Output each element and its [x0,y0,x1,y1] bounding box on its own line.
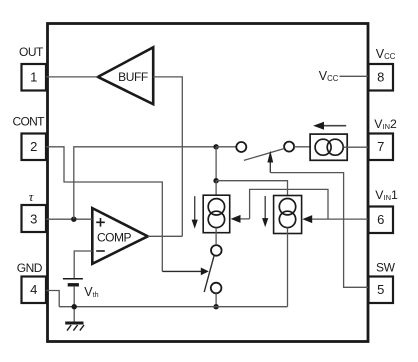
wire COMP minus input to battery [74,251,92,278]
pin 3 box [22,205,47,232]
svg-text:SW: SW [376,261,396,275]
svg-text:COMP: COMP [97,230,131,244]
wire pin4 GND to ground rail [46,291,59,307]
wire current mirror to pin 7 [343,146,368,148]
svg-text:GND: GND [17,261,43,275]
wire S2 bottom contact to ground rail [215,293,217,306]
node battery ground junction [72,304,77,309]
wire junction down to middle node [215,147,217,181]
svg-text:CONT: CONT [13,115,46,129]
IC outer border [48,24,369,342]
arrow into I1 from VIN1 pointing left [231,215,250,223]
wire VIN1 branch to I1 [250,189,328,219]
arrow CONT control pointing right at lower switch [201,268,209,276]
battery Vth [63,279,83,285]
wire S1 control from pin5 SW [270,173,368,288]
svg-text:BUFF: BUFF [118,70,148,84]
current source I1 left [203,195,230,233]
arrow I1 direction pointing down [192,196,198,228]
arrow S1 control pointing up [267,151,273,173]
current source I2 right [274,196,302,234]
current mirror B1 [310,134,347,160]
node middle junction [213,178,218,183]
wire Vcc label to pin 8 [340,75,369,77]
wire pin2 CONT to lower switch control [46,147,162,272]
wire right current source bottom to ground rail [287,228,289,307]
svg-text:6: 6 [377,212,384,227]
arrow into I2 from VIN1 pointing left [302,215,368,223]
svg-text:1: 1 [30,70,37,85]
wire COMP output to buffer branch [148,235,183,237]
wire middle node down to left current source [215,181,217,199]
node junction upper row [213,144,218,149]
arrow I2 direction pointing down [262,196,268,227]
svg-text:4: 4 [30,282,37,297]
pin 5 box [369,277,394,304]
svg-text:7: 7 [377,139,384,154]
svg-text:8: 8 [377,70,384,85]
ground rail [59,306,287,308]
wire tau node up to upper row [74,147,216,219]
wire junction to upper switch left contact [216,146,236,148]
wire middle node to right current source top [216,181,287,199]
wire battery to ground rail [73,286,75,322]
ground symbol [65,323,84,331]
svg-text:2: 2 [30,139,37,154]
pin 7 box [369,134,394,161]
wire pin1 to BUFF output [46,76,98,78]
switch S2 lower [204,245,221,293]
comparator U2 COMP [92,208,148,264]
pin 6 box [369,207,394,234]
pin 8 box [369,64,394,91]
node tau junction at plus input [71,217,76,222]
node S2 ground junction [213,304,218,309]
pin 2 box [22,134,47,161]
switch S1 upper [236,142,294,161]
svg-text:5: 5 [377,282,384,297]
svg-text:OUT: OUT [19,45,44,59]
pin 1 box [22,64,47,91]
arrow current mirror direction pointing left [313,122,346,130]
pin 4 box [22,277,47,304]
wire pin3 tau to COMP plus input [46,218,92,220]
wire upper switch right contact to current mirror [294,146,315,148]
buffer U1 BUFF [98,47,153,104]
svg-text:3: 3 [30,212,37,227]
wire left current source to S2 top contact [215,228,217,246]
wire BUFF input from comparator [153,77,182,236]
